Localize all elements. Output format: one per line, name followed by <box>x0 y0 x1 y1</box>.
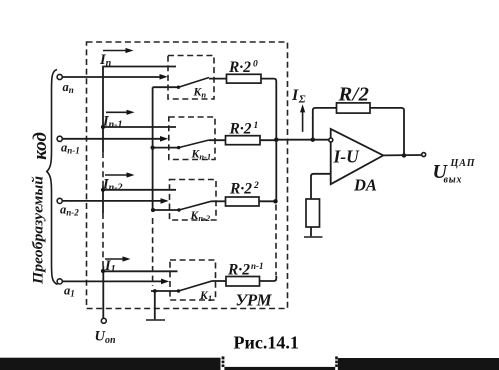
svg-text:IΣ: IΣ <box>291 87 306 106</box>
switch K_n lever <box>179 78 210 88</box>
svg-text:R/2: R/2 <box>338 84 370 106</box>
wire R*2^1 right lead <box>260 139 276 141</box>
svg-text:Преобразуемый: Преобразуемый <box>31 176 47 285</box>
terminal Vop reference <box>101 318 106 323</box>
ground at K_1 contact <box>154 291 156 319</box>
bottom rule left tick <box>222 356 225 359</box>
arrowhead a_n-1 line <box>160 136 168 142</box>
wire summing bus solid <box>275 140 277 202</box>
wire R*2^2 right lead <box>259 200 276 202</box>
resistor R*2^2 <box>226 197 260 206</box>
wire K_1 lower contact <box>151 290 179 292</box>
svg-text:an-1: an-1 <box>61 141 80 156</box>
switch K_n-2 lever <box>179 201 211 210</box>
ground at op-amp input resistor <box>304 236 323 238</box>
svg-text:a1: a1 <box>64 284 75 299</box>
wire switched-contact bus dashed continuation <box>152 218 154 286</box>
wire K_n-1 lower contact <box>153 147 179 149</box>
terminal a_n-2 <box>57 198 62 203</box>
wire I_n-2 upper contact <box>103 189 176 191</box>
junction summing bus / row2 <box>274 138 278 142</box>
junction pivot K_1 <box>177 289 180 292</box>
wire summing bus dashed continuation <box>275 205 277 276</box>
current vector arrow I_n-2 <box>105 174 130 176</box>
wire I_n upper contact <box>103 67 176 153</box>
bottom rule right tick <box>335 356 338 359</box>
wire a_n-2 input line <box>62 200 165 202</box>
wire feedback up <box>313 108 337 140</box>
wire feedback right and down <box>370 108 404 155</box>
op-amp inverting input circle <box>329 138 333 142</box>
junction feedback / output <box>402 153 406 157</box>
wire I_n-1 upper contact <box>103 126 176 128</box>
wire op-amp noninverting input <box>311 174 331 199</box>
resistor R*2^0 <box>227 74 262 83</box>
switch K_n dashed box <box>168 56 214 100</box>
junction pivot K_n-2 <box>177 208 180 211</box>
arrowhead a_1 line <box>161 279 169 285</box>
wire Vref bus left solid to Vop terminal <box>102 266 104 318</box>
current vector arrow I_n-1 <box>106 111 130 113</box>
junction summing bus / row3 <box>273 199 277 203</box>
resistor R*2^1 <box>226 136 261 145</box>
switch K_1 lever <box>179 281 213 291</box>
wire Vref bus left solid segment 2 <box>102 186 104 213</box>
svg-text:I-U: I-U <box>333 147 361 167</box>
svg-text:Кn: Кn <box>193 87 207 100</box>
wire K_n output to resistor <box>209 78 227 80</box>
bottom black rule left segment <box>0 358 221 370</box>
wire a_1 input line <box>62 280 165 282</box>
terminal output <box>422 153 426 157</box>
wire a_n input line <box>62 76 164 78</box>
terminal a_n-1 <box>57 136 62 141</box>
svg-text:К1: К1 <box>199 290 212 303</box>
resistor at noninverting input <box>306 199 320 227</box>
switch K_n-1 lever <box>179 140 209 148</box>
wire K_n-2 lower contact <box>153 209 179 211</box>
wire a_n-1 input line <box>62 138 164 140</box>
wire R*2^n-1 right lead <box>260 276 277 281</box>
svg-text:УРМ: УРМ <box>236 291 273 310</box>
svg-text:In-2: In-2 <box>102 176 123 193</box>
switch K_n-1 dashed box <box>169 117 215 160</box>
svg-text:Кn-1: Кn-1 <box>191 149 212 162</box>
svg-text:an: an <box>63 80 74 95</box>
UPM block dashed outline <box>87 42 288 309</box>
junction pivot K_n-1 <box>177 146 180 149</box>
arrowhead a_n-2 line <box>161 198 169 204</box>
junction bus2 / K_n-2 lower contact <box>151 208 155 212</box>
junction Vref bus / I_1 <box>101 269 105 273</box>
svg-text:вых: вых <box>444 175 463 186</box>
wire K_1 output to resistor <box>213 280 227 282</box>
terminal a_n <box>57 74 62 79</box>
svg-text:I1: I1 <box>104 258 116 275</box>
wire I_1 upper contact <box>103 270 178 272</box>
op-amp U1 I-U converter triangle <box>331 129 384 184</box>
wire Vref bus left dashed segment 2 <box>102 213 104 266</box>
wire switched-contact bus solid <box>152 87 154 211</box>
wire K_n-2 output to resistor <box>211 200 226 202</box>
resistor R/2 <box>337 103 371 113</box>
svg-text:код: код <box>30 132 51 160</box>
current vector arrow I_1 <box>105 258 126 260</box>
junction Vref bus / I_n-1 <box>101 125 105 129</box>
wire Vref bus left dashed segment 1 <box>102 152 104 186</box>
svg-text:an-2: an-2 <box>60 203 79 218</box>
wire op-amp output <box>383 154 422 156</box>
brace for input code group <box>47 70 58 285</box>
svg-text:In-1: In-1 <box>102 114 123 131</box>
junction pivot K_n <box>177 86 180 89</box>
junction bus2 / K_n-1 lower contact <box>151 146 155 150</box>
svg-text:R·22: R·22 <box>229 181 259 198</box>
svg-text:ЦАП: ЦАП <box>450 158 476 169</box>
current arrow I_sigma <box>302 109 304 132</box>
wire K_n lower contact <box>153 86 179 88</box>
wire resistor to ground <box>310 227 312 236</box>
svg-text:Кn-2: Кn-2 <box>190 210 211 223</box>
svg-text:Uоп: Uоп <box>95 329 116 347</box>
resistor R*2^n-1 <box>226 277 260 287</box>
wire R*2^0 right lead <box>261 79 276 140</box>
terminal a_1 <box>57 279 62 284</box>
wire summing node to op-amp input <box>276 139 329 141</box>
current vector arrow I_n <box>103 50 129 52</box>
svg-text:DA: DA <box>353 176 377 195</box>
switch K_1 dashed box <box>170 260 216 300</box>
svg-text:R·20: R·20 <box>228 59 258 76</box>
arrowhead a_n line <box>160 74 168 80</box>
switch K_n-2 dashed box <box>170 180 217 221</box>
svg-text:Рис.14.1: Рис.14.1 <box>234 333 299 353</box>
junction feedback tap <box>311 138 315 142</box>
bottom rule middle band <box>224 367 335 370</box>
wire K_n-1 output to resistor <box>209 139 226 141</box>
junction Vref bus / I_n-2 <box>101 188 105 192</box>
bottom black rule right segment <box>338 358 499 370</box>
